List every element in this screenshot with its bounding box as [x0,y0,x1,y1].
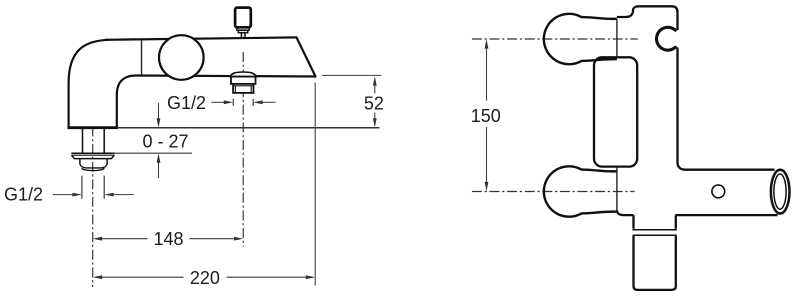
spout leg bottom edge [68,126,118,129]
screw hole on arm [712,185,725,198]
bottom inlet leg [544,166,617,216]
hose outlet nut [233,84,253,93]
svg-text:148: 148 [153,229,183,249]
dim 52 vertical [374,84,376,121]
deck line [118,127,380,129]
dim 52 extension line [322,74,381,76]
diverter knob collar [237,27,249,30]
body seam line [141,40,143,74]
dim 0-27 bottom arrow [158,157,160,178]
dim G1/2 outlet ticks [233,99,253,106]
cartridge housing [594,57,637,166]
inlet nut lip [82,168,104,171]
bottom outlet cylinder [634,215,676,229]
faucet body top line [105,37,297,39]
dim 150 [486,47,488,184]
svg-text:G1/2: G1/2 [4,184,43,204]
inlet nut [80,159,107,165]
lower position line (0-27 bottom) [114,152,192,154]
top leg seam [616,19,618,58]
centerline top inlet [472,38,638,40]
arm bottom line [675,214,777,216]
shower hook (C shape) [655,26,678,52]
svg-text:52: 52 [364,93,384,113]
hose outlet dome [230,72,257,77]
centerline bottom inlet [472,191,635,193]
diverter knob body [235,8,251,28]
dim G1/2 inlet arrows [53,194,73,196]
svg-text:G1/2: G1/2 [167,93,206,113]
spout end inner rim [774,174,786,209]
dim G1/2 outlet arrows [212,101,225,103]
inlet escutcheon flange [71,152,114,154]
faucet right sloped end [297,37,316,76]
dim G1/2 inlet ticks [82,176,104,199]
inlet shank lines [83,129,105,153]
dim 148 line [102,238,234,240]
svg-text:220: 220 [190,268,220,288]
diverter knob stem [241,33,245,38]
svg-text:150: 150 [471,106,501,126]
centerline hose outlet (x=243.2) [242,52,244,247]
dim 220 right extension [314,83,316,286]
body bottom-left to arm bottom [617,211,634,216]
centerline inlet (x=92.7) [92,127,94,288]
spout end outer rim [771,170,790,214]
spout elbow outer contour [69,40,109,127]
bottom leg seam [616,167,618,212]
dim 0-27 top arrow [158,103,160,124]
body top outline [617,6,678,30]
spout leg inner edge + inner elbow corner [117,76,136,128]
handle (circle) [159,35,204,80]
body right edge + arm top [678,48,775,170]
top inlet leg [544,14,617,64]
svg-text:0 - 27: 0 - 27 [143,132,189,152]
hose outlet flange [231,77,256,84]
faucet body bottom line [136,76,316,77]
dim 220 line [102,276,306,278]
